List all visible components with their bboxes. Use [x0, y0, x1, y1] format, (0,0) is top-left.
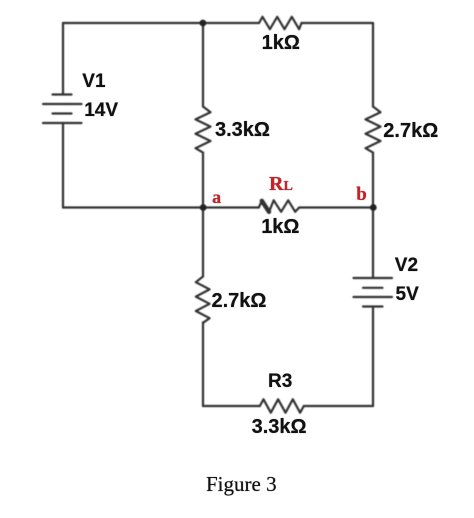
label V2	[395, 255, 418, 277]
wire right vertical upper	[372, 23, 374, 107]
battery V2	[354, 278, 393, 307]
wire lower-middle branch upper	[202, 208, 204, 277]
wire left vertical lower	[62, 123, 64, 208]
wire right vertical lower	[372, 307, 374, 407]
label V1	[82, 71, 105, 93]
wire bottom horizontal right segment	[304, 405, 373, 407]
wire middle horizontal right segment	[299, 206, 373, 208]
label node a	[212, 187, 221, 208]
resistor 2.7k (lower middle branch)	[196, 277, 210, 323]
label 2.7kOhm right branch resistor	[383, 120, 438, 143]
label 1kOhm top resistor	[262, 32, 300, 55]
resistor 2.7k (right branch)	[366, 107, 381, 153]
resistor RL 1k (middle)	[259, 200, 299, 212]
node top junction	[200, 20, 207, 27]
battery V1	[43, 95, 82, 124]
wire middle branch to node a	[202, 153, 204, 208]
wire middle branch upper vertical	[202, 23, 204, 107]
wire left vertical upper	[62, 23, 64, 94]
label node b	[356, 184, 367, 206]
label RL	[269, 173, 293, 196]
resistor 1k (top)	[259, 17, 302, 29]
wire middle horizontal left segment	[63, 206, 259, 208]
label 2.7kOhm lower middle resistor	[212, 290, 267, 313]
label 3.3kOhm bottom resistor	[252, 416, 307, 439]
resistor R3 3.3k (bottom)	[260, 399, 304, 412]
label R3	[268, 371, 292, 393]
resistor 3.3k (middle branch)	[196, 107, 211, 153]
label 1kOhm RL resistor	[261, 216, 299, 239]
wire lower-middle branch lower	[202, 322, 204, 406]
label 3.3kOhm middle branch resistor	[215, 119, 270, 142]
label 5V	[396, 284, 419, 306]
wire right vertical middle	[372, 153, 374, 278]
caption Figure 3	[206, 472, 277, 497]
label 14V	[84, 100, 118, 122]
wire top horizontal right segment	[302, 22, 374, 24]
wire top horizontal left segment	[63, 22, 259, 24]
node b junction	[370, 204, 377, 211]
wire bottom horizontal left segment	[203, 405, 260, 407]
node a junction	[200, 204, 207, 211]
